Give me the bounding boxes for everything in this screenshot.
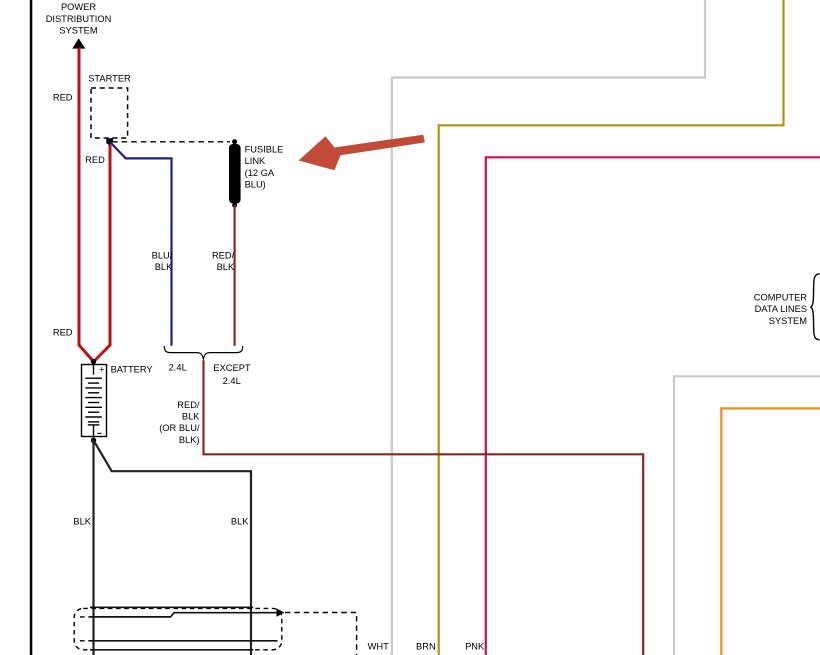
svg-text:BLK: BLK: [217, 262, 235, 272]
splice output arrowhead: [277, 609, 285, 617]
svg-text:+: +: [99, 365, 104, 375]
brace over 2.4L wires: [164, 346, 242, 359]
wire WHT (gray) to top: [392, 0, 705, 655]
splice bus bar 3: [90, 640, 278, 642]
svg-text:FUSIBLE: FUSIBLE: [245, 145, 284, 155]
svg-text:BLK: BLK: [231, 517, 249, 527]
svg-text:BLU/: BLU/: [152, 250, 173, 260]
svg-text:BLK: BLK: [73, 517, 91, 527]
left page border line: [30, 0, 33, 655]
svg-text:SYSTEM: SYSTEM: [769, 316, 807, 326]
svg-text:(OR BLU/: (OR BLU/: [159, 423, 200, 433]
svg-text:BRN: BRN: [416, 642, 436, 652]
callout arrow pointing to fusible link: [299, 135, 425, 171]
svg-text:2.4L: 2.4L: [169, 362, 187, 372]
svg-text:PNK: PNK: [465, 642, 485, 652]
svg-text:BLK: BLK: [155, 262, 173, 272]
node label POWER DISTRIBUTION SYSTEM: [46, 2, 112, 35]
battery positive junction dot: [91, 359, 96, 364]
ground splice dashed capsule: [74, 608, 282, 649]
wire RED/BLK (OR BLU/BLK): [204, 360, 644, 655]
fusible link bottom junction dot: [232, 203, 237, 208]
wire BLK right from battery negative to splice: [94, 440, 252, 655]
wire PNK (crimson) to right: [486, 157, 820, 655]
svg-text:RED: RED: [85, 155, 105, 165]
dashed wire WHT from splice: [285, 613, 357, 655]
wire gray to computer data lines: [674, 376, 820, 655]
node label EXCEPT 2.4L: [213, 363, 251, 386]
svg-text:LINK: LINK: [245, 156, 266, 166]
svg-text:RED/: RED/: [177, 400, 200, 410]
wire ORG (orange): [721, 408, 820, 655]
value label FUSIBLE LINK (12 GA BLU): [245, 145, 284, 190]
splice bus bar 4: [90, 649, 253, 651]
svg-text:SYSTEM: SYSTEM: [59, 26, 97, 36]
svg-text:DISTRIBUTION: DISTRIBUTION: [46, 14, 112, 24]
svg-text:STARTER: STARTER: [88, 73, 131, 83]
splice bus bar 2 dashed left stub: [80, 616, 90, 618]
svg-text:DATA LINES: DATA LINES: [755, 304, 807, 314]
value label RED/BLK (OR BLU/BLK): [159, 400, 200, 445]
wire RED from starter to battery positive: [94, 145, 110, 362]
wire RED/BLK from fusible link: [234, 205, 236, 346]
wire BRN (dark yellow) to top: [439, 0, 784, 655]
splice bus bar 2 with jog: [90, 613, 277, 617]
svg-text:RED/: RED/: [212, 250, 235, 260]
svg-text:BLU): BLU): [245, 180, 266, 190]
svg-text:2.4L: 2.4L: [223, 376, 241, 386]
battery BT1: [82, 365, 107, 441]
svg-text:WHT: WHT: [368, 642, 389, 652]
junction arrow at starter terminal: [106, 138, 113, 145]
svg-text:POWER: POWER: [61, 2, 96, 12]
svg-text:BLK): BLK): [179, 435, 200, 445]
wire RED from power distribution to battery positive: [79, 48, 94, 362]
fusible link F1 body: [229, 144, 241, 204]
node label COMPUTER DATA LINES SYSTEM: [754, 293, 807, 326]
svg-text:(12 GA: (12 GA: [245, 168, 275, 178]
fusible link top junction dot: [232, 139, 237, 144]
svg-text:EXCEPT: EXCEPT: [213, 363, 251, 373]
svg-text:COMPUTER: COMPUTER: [754, 293, 807, 303]
value label BLU/BLK: [152, 250, 173, 272]
svg-text:BATTERY: BATTERY: [111, 364, 153, 374]
wire BLK left from battery negative to splice: [92, 440, 94, 655]
starter dashed box: [91, 88, 128, 138]
svg-text:BLK: BLK: [182, 412, 200, 422]
svg-text:RED: RED: [53, 93, 73, 103]
wire BLU/BLK from starter node: [111, 143, 172, 346]
value label RED/BLK: [212, 250, 235, 272]
dashed wire from starter node to fusible link: [112, 141, 230, 143]
splice bus bar 3 dashed left stub: [80, 640, 90, 642]
svg-text:RED: RED: [53, 328, 73, 338]
splice bus bar 1: [90, 606, 253, 608]
brace for computer data lines system: [811, 274, 820, 340]
arrowhead to power distribution system: [72, 38, 85, 48]
battery negative junction dot: [91, 438, 96, 443]
